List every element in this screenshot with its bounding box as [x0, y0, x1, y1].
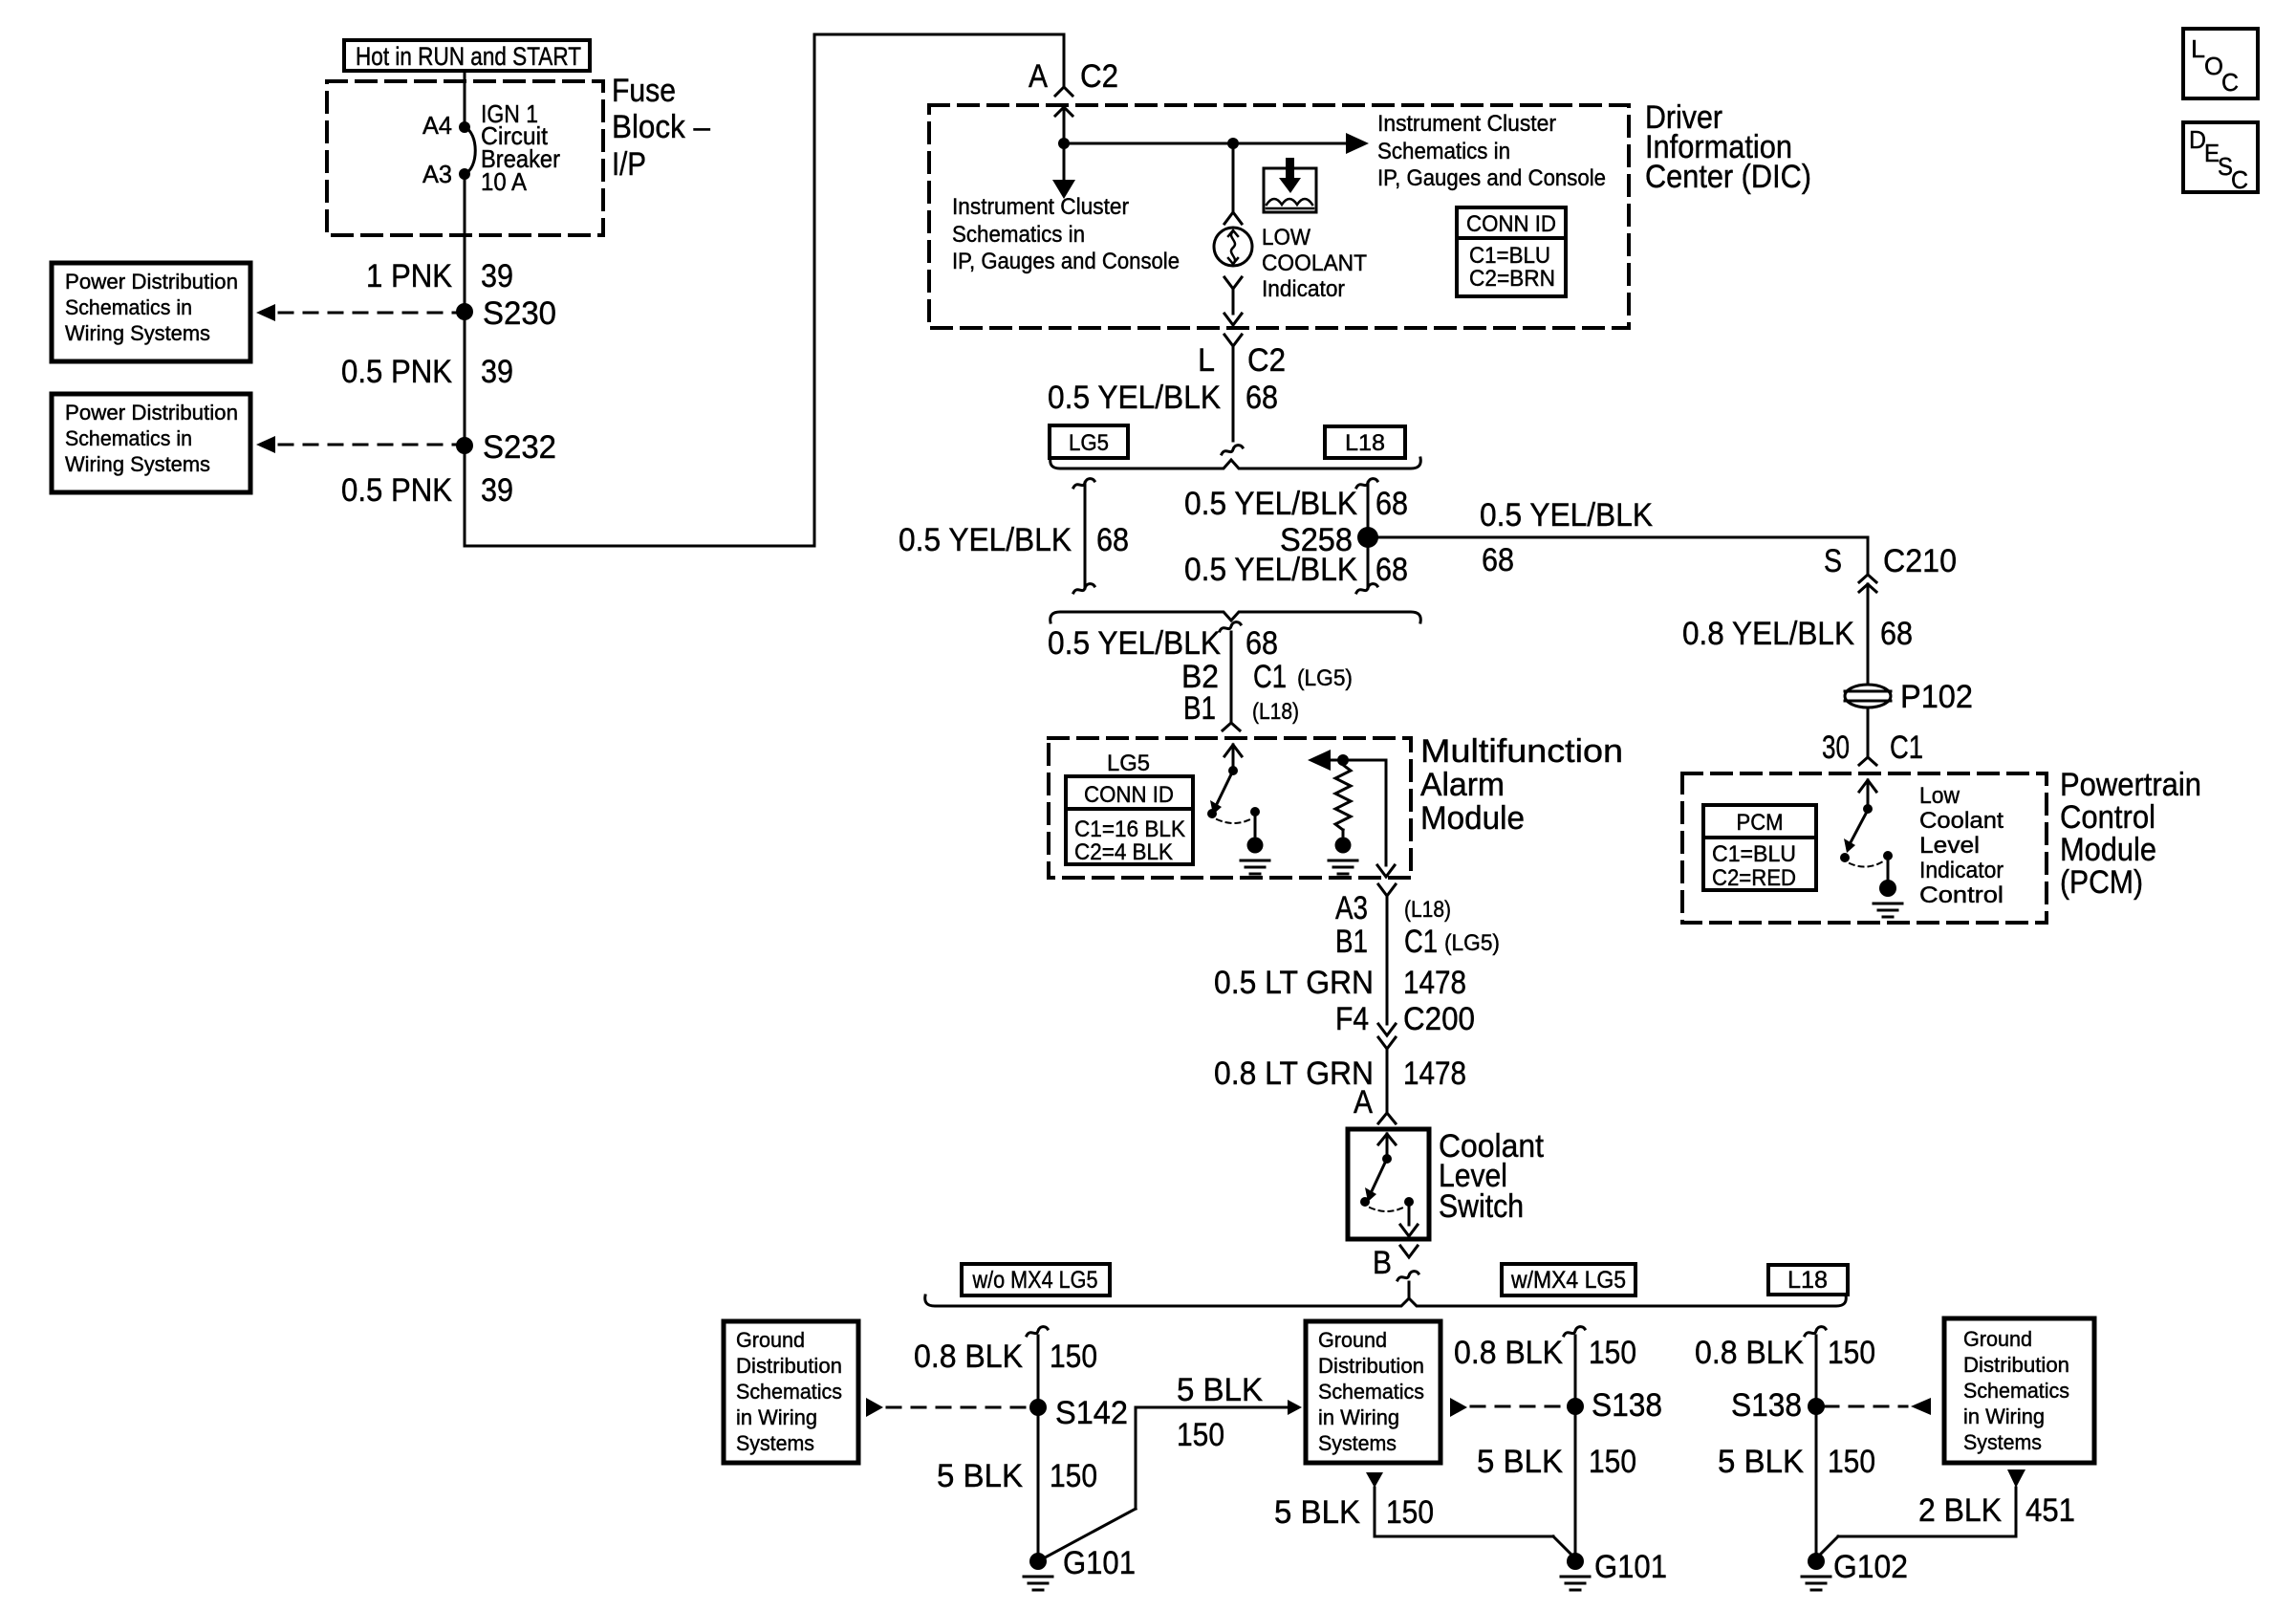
- svg-text:IP, Gauges and Console: IP, Gauges and Console: [952, 249, 1180, 274]
- svg-text:L: L: [2191, 34, 2205, 63]
- svg-text:39: 39: [481, 354, 513, 390]
- svg-text:C: C: [2221, 68, 2239, 97]
- svg-text:C2=4 BLK: C2=4 BLK: [1074, 839, 1173, 865]
- svg-text:68: 68: [1096, 522, 1129, 558]
- svg-text:L: L: [1198, 342, 1215, 379]
- svg-text:A: A: [1029, 58, 1048, 95]
- svg-text:0.8 BLK: 0.8 BLK: [1695, 1335, 1804, 1371]
- svg-text:0.8 YEL/BLK: 0.8 YEL/BLK: [1682, 616, 1854, 652]
- svg-text:2 BLK: 2 BLK: [1918, 1492, 2002, 1529]
- svg-text:0.5 YEL/BLK: 0.5 YEL/BLK: [1184, 486, 1357, 522]
- svg-text:C210: C210: [1883, 543, 1957, 579]
- svg-text:Hot in RUN and START: Hot in RUN and START: [356, 42, 581, 71]
- svg-text:39: 39: [481, 258, 513, 294]
- svg-text:I/P: I/P: [612, 146, 646, 183]
- svg-text:0.5 PNK: 0.5 PNK: [341, 472, 452, 509]
- svg-text:L18: L18: [1787, 1267, 1828, 1294]
- svg-text:(LG5): (LG5): [1297, 665, 1353, 691]
- svg-text:C: C: [2231, 165, 2248, 194]
- svg-text:Instrument Cluster: Instrument Cluster: [1377, 111, 1556, 137]
- svg-text:1478: 1478: [1403, 965, 1466, 1001]
- svg-text:L18: L18: [1345, 430, 1385, 456]
- svg-text:5 BLK: 5 BLK: [1274, 1494, 1360, 1531]
- svg-text:Fuse: Fuse: [612, 73, 676, 109]
- svg-text:C200: C200: [1403, 1001, 1475, 1037]
- svg-text:Instrument Cluster: Instrument Cluster: [952, 194, 1129, 220]
- svg-text:Distribution: Distribution: [736, 1354, 842, 1378]
- svg-text:Schematics in: Schematics in: [65, 426, 192, 450]
- svg-text:S142: S142: [1055, 1395, 1128, 1431]
- svg-text:0.5 PNK: 0.5 PNK: [341, 354, 452, 390]
- svg-text:(L18): (L18): [1252, 699, 1299, 725]
- svg-text:A3: A3: [422, 160, 452, 188]
- svg-text:Schematics in: Schematics in: [1377, 139, 1510, 164]
- svg-text:150: 150: [1386, 1494, 1434, 1531]
- svg-text:S138: S138: [1731, 1387, 1802, 1424]
- svg-text:O: O: [2204, 52, 2223, 80]
- svg-text:Control: Control: [1919, 882, 2004, 908]
- svg-text:Powertrain: Powertrain: [2060, 767, 2201, 803]
- svg-text:150: 150: [1589, 1444, 1636, 1480]
- svg-text:LG5: LG5: [1107, 751, 1150, 776]
- svg-text:0.5 YEL/BLK: 0.5 YEL/BLK: [1048, 625, 1221, 662]
- svg-text:Coolant: Coolant: [1919, 808, 2004, 834]
- svg-text:S: S: [1824, 543, 1842, 579]
- svg-text:10 A: 10 A: [481, 167, 528, 196]
- svg-text:0.5 LT GRN: 0.5 LT GRN: [1214, 965, 1374, 1001]
- svg-text:0.8 BLK: 0.8 BLK: [1454, 1335, 1563, 1371]
- svg-text:C1=BLU: C1=BLU: [1469, 243, 1550, 269]
- svg-text:C1: C1: [1890, 729, 1923, 766]
- svg-text:68: 68: [1375, 552, 1408, 588]
- svg-text:w/MX4 LG5: w/MX4 LG5: [1510, 1267, 1626, 1294]
- svg-text:S232: S232: [483, 429, 556, 466]
- svg-text:30: 30: [1822, 729, 1850, 766]
- svg-text:w/o MX4 LG5: w/o MX4 LG5: [972, 1267, 1098, 1294]
- svg-text:C2=BRN: C2=BRN: [1469, 266, 1555, 292]
- svg-text:in Wiring: in Wiring: [1318, 1405, 1399, 1429]
- svg-text:G101: G101: [1063, 1545, 1136, 1581]
- svg-text:Multifunction: Multifunction: [1420, 733, 1623, 770]
- svg-text:P102: P102: [1900, 679, 1973, 715]
- svg-text:Ground: Ground: [1318, 1328, 1387, 1352]
- svg-text:150: 150: [1050, 1339, 1097, 1375]
- svg-text:B1: B1: [1335, 924, 1368, 960]
- svg-text:0.5 YEL/BLK: 0.5 YEL/BLK: [1048, 380, 1221, 416]
- svg-text:Switch: Switch: [1439, 1188, 1524, 1225]
- svg-text:LOW: LOW: [1262, 225, 1310, 250]
- svg-text:Schematics in: Schematics in: [952, 222, 1085, 248]
- svg-text:S138: S138: [1592, 1387, 1662, 1424]
- svg-text:39: 39: [481, 472, 513, 509]
- svg-text:Schematics: Schematics: [1963, 1379, 2069, 1403]
- svg-text:Level: Level: [1919, 833, 1980, 859]
- svg-text:G101: G101: [1594, 1549, 1667, 1585]
- svg-text:68: 68: [1245, 380, 1278, 416]
- svg-text:COOLANT: COOLANT: [1262, 250, 1367, 276]
- svg-text:Center (DIC): Center (DIC): [1645, 159, 1811, 195]
- svg-text:IP, Gauges and Console: IP, Gauges and Console: [1377, 165, 1606, 191]
- svg-text:68: 68: [1482, 542, 1514, 578]
- svg-text:Indicator: Indicator: [1919, 858, 2004, 883]
- svg-text:C2=RED: C2=RED: [1712, 865, 1796, 891]
- svg-text:150: 150: [1828, 1335, 1875, 1371]
- svg-text:G102: G102: [1833, 1549, 1908, 1585]
- svg-text:1 PNK: 1 PNK: [366, 258, 452, 294]
- svg-text:68: 68: [1375, 486, 1408, 522]
- svg-text:C2: C2: [1080, 58, 1118, 95]
- svg-text:CONN ID: CONN ID: [1466, 211, 1556, 237]
- svg-text:Wiring Systems: Wiring Systems: [65, 452, 210, 476]
- svg-text:150: 150: [1828, 1444, 1875, 1480]
- svg-text:A: A: [1354, 1084, 1373, 1121]
- svg-text:Power Distribution: Power Distribution: [65, 401, 238, 425]
- svg-text:Ground: Ground: [1963, 1327, 2032, 1351]
- svg-text:5 BLK: 5 BLK: [937, 1458, 1023, 1494]
- svg-text:Wiring Systems: Wiring Systems: [65, 321, 210, 345]
- svg-text:S230: S230: [483, 295, 556, 332]
- svg-text:F4: F4: [1335, 1001, 1369, 1037]
- svg-text:0.5 YEL/BLK: 0.5 YEL/BLK: [1480, 497, 1653, 533]
- svg-text:Schematics: Schematics: [736, 1380, 842, 1404]
- svg-text:Module: Module: [1420, 800, 1525, 837]
- svg-text:Low: Low: [1919, 783, 1960, 809]
- svg-text:1478: 1478: [1403, 1056, 1466, 1092]
- svg-text:PCM: PCM: [1737, 810, 1784, 836]
- svg-text:Systems: Systems: [1318, 1431, 1397, 1455]
- svg-text:(L18): (L18): [1404, 897, 1451, 923]
- svg-text:0.5 YEL/BLK: 0.5 YEL/BLK: [899, 522, 1072, 558]
- svg-text:B1: B1: [1183, 690, 1216, 727]
- svg-text:Distribution: Distribution: [1318, 1354, 1424, 1378]
- svg-text:A3: A3: [1335, 890, 1368, 926]
- svg-text:Control: Control: [2060, 799, 2155, 836]
- svg-text:C1: C1: [1404, 924, 1438, 960]
- svg-text:CONN ID: CONN ID: [1084, 782, 1174, 808]
- svg-text:A4: A4: [422, 111, 452, 140]
- svg-text:Indicator: Indicator: [1262, 276, 1345, 302]
- svg-text:150: 150: [1177, 1417, 1224, 1453]
- svg-text:B: B: [1373, 1245, 1392, 1281]
- svg-text:Schematics in: Schematics in: [65, 295, 192, 319]
- svg-text:C1: C1: [1253, 659, 1287, 695]
- svg-text:5 BLK: 5 BLK: [1177, 1372, 1263, 1408]
- svg-text:in Wiring: in Wiring: [1963, 1404, 2045, 1428]
- svg-text:68: 68: [1880, 616, 1913, 652]
- svg-text:Ground: Ground: [736, 1328, 805, 1352]
- svg-text:Power Distribution: Power Distribution: [65, 270, 238, 294]
- svg-text:0.8 LT GRN: 0.8 LT GRN: [1214, 1056, 1374, 1092]
- svg-text:68: 68: [1245, 625, 1278, 662]
- svg-text:C2: C2: [1247, 342, 1286, 379]
- svg-text:(PCM): (PCM): [2060, 864, 2143, 901]
- svg-text:in Wiring: in Wiring: [736, 1405, 817, 1429]
- svg-text:C1=16 BLK: C1=16 BLK: [1074, 816, 1185, 842]
- svg-text:150: 150: [1050, 1458, 1097, 1494]
- svg-text:5 BLK: 5 BLK: [1718, 1444, 1804, 1480]
- svg-text:Distribution: Distribution: [1963, 1353, 2069, 1377]
- svg-text:150: 150: [1589, 1335, 1636, 1371]
- svg-text:Module: Module: [2060, 832, 2156, 868]
- svg-text:5 BLK: 5 BLK: [1477, 1444, 1563, 1480]
- svg-text:LG5: LG5: [1069, 430, 1109, 456]
- svg-text:451: 451: [2025, 1492, 2075, 1529]
- svg-text:Systems: Systems: [1963, 1430, 2042, 1454]
- svg-text:0.8 BLK: 0.8 BLK: [914, 1339, 1023, 1375]
- svg-text:Block –: Block –: [612, 109, 710, 145]
- svg-text:Alarm: Alarm: [1420, 767, 1505, 803]
- svg-text:0.5 YEL/BLK: 0.5 YEL/BLK: [1184, 552, 1357, 588]
- svg-text:Systems: Systems: [736, 1431, 814, 1455]
- svg-text:(LG5): (LG5): [1444, 930, 1500, 956]
- svg-text:Schematics: Schematics: [1318, 1380, 1424, 1404]
- svg-text:C1=BLU: C1=BLU: [1712, 841, 1796, 867]
